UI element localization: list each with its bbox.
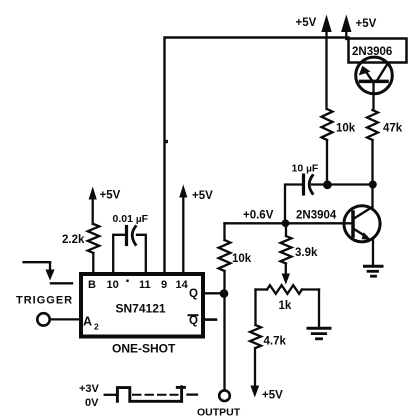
node OUTPUT terminal [219,390,230,401]
svg-text:+3V: +3V [79,383,100,395]
resistor 4.7k [250,325,286,348]
wire 4.7k to +5V arrow (down) [250,348,283,402]
node +0.6V base wire [225,210,354,228]
trigger falling-edge symbol [24,262,72,283]
wire pot left down [254,290,256,326]
wire 10k bottom through Q node to output [223,271,225,390]
ground (pot) [308,328,330,339]
svg-text:B: B [88,279,96,291]
svg-text:9: 9 [161,279,167,291]
svg-text:+5V: +5V [296,17,317,29]
svg-text:4.7k: 4.7k [264,336,287,348]
svg-text:ONE-SHOT: ONE-SHOT [112,342,176,356]
svg-text:10k: 10k [232,253,252,265]
wire cap to collector [312,183,373,185]
node junction dot (10k/cap) [323,180,332,189]
node TRIGGER terminal [37,313,49,325]
resistor 3.9k [281,223,318,263]
transistor Q1 label box 2N3906 [349,39,407,63]
svg-text:+5V: +5V [356,18,377,30]
wire emitter to ground [372,240,374,266]
svg-text:47k: 47k [383,123,403,135]
+5V supply arrow (2.2k top) [89,187,121,225]
svg-text:SN74121: SN74121 [116,302,166,316]
transistor Q2 2N3904 (NPN) [296,206,380,242]
wire 2.2k to pin B [92,253,94,273]
svg-text:10 μF: 10 μF [292,163,319,175]
wire trigger to A2 [50,318,79,320]
capacitor 10uF [292,163,319,195]
resistor 10k (Q output to base) [219,223,252,271]
wire cap left to base node [285,185,302,224]
svg-text:Q: Q [189,315,198,327]
pin Q-bar stub [205,318,216,321]
svg-text:OUTPUT: OUTPUT [197,407,241,418]
node Q output junction [220,289,229,298]
wire 10k bottom to cap node [326,140,328,185]
svg-text:0.01 μF: 0.01 μF [113,213,149,225]
svg-text:10: 10 [107,279,119,291]
svg-text:2N3904: 2N3904 [296,210,337,222]
op-amp U1 SN74121 one-shot box [81,274,203,337]
capacitor 0.01uF [113,213,149,245]
svg-text:+5V: +5V [100,190,121,202]
wire cap right leg to pin 11 [137,235,146,273]
potentiometer 1k [256,285,320,312]
+5V supply arrow (pin 14) [179,185,213,274]
svg-text:Q: Q [189,288,198,300]
svg-text:+5V: +5V [192,190,213,202]
ground (2N3904 emitter) [365,266,383,276]
pin Q stub [205,292,221,294]
svg-text:3.9k: 3.9k [295,247,318,259]
svg-text:2: 2 [94,322,99,332]
+5V supply arrow (10k top right) [296,15,332,110]
input waveform +3V/0V [79,383,197,409]
wire pin9 to top rail [165,38,349,273]
svg-text:0V: 0V [85,397,99,409]
transistor Q1 2N3906 (PNP) [356,57,393,110]
wire cap left leg to pin 10 [113,235,125,273]
svg-text:TRIGGER: TRIGGER [16,295,73,307]
svg-text:10k: 10k [336,123,356,135]
scan speck [126,280,128,282]
svg-text:2.2k: 2.2k [62,234,85,246]
svg-text:1k: 1k [279,300,292,312]
resistor 2.2k [62,224,99,253]
resistor 47k [367,110,403,140]
wire pot right to ground [318,290,320,328]
svg-text:A: A [83,315,92,329]
svg-text:+5V: +5V [262,390,283,402]
node junction dot (47k/collector) [369,181,377,189]
svg-text:11: 11 [139,279,151,291]
svg-text:+0.6V: +0.6V [243,210,274,222]
resistor 10k (pull-up) [322,109,356,140]
scan speck [165,140,168,143]
svg-text:14: 14 [176,279,189,291]
wire 47k bottom to collector node [371,140,373,208]
wire 3.9k to pot wiper arrow [282,264,290,285]
+5V supply arrow (2N3906 emitter box) [341,15,377,40]
